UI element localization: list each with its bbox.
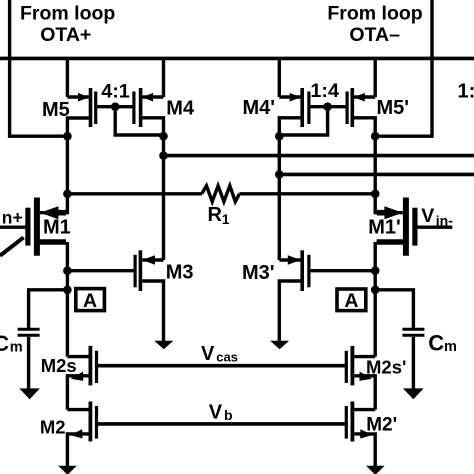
- arrow M5 source (PMOS): [78, 93, 89, 102]
- svg-text:From loop: From loop: [20, 3, 115, 25]
- junction M5' drain / OTA- node: [371, 132, 380, 141]
- wire M3 drain lead: [142, 258, 163, 261]
- svg-text:M1': M1': [368, 217, 401, 239]
- wire M4 source lead: [142, 95, 163, 98]
- svg-text:M2': M2': [366, 415, 397, 436]
- capacitor Cm left plates: [18, 329, 40, 335]
- svg-text:M2s: M2s: [41, 355, 77, 376]
- svg-text:C: C: [428, 330, 444, 355]
- svg-text:V: V: [421, 205, 434, 227]
- arrow M2s source: [71, 372, 84, 381]
- svg-text:V: V: [209, 402, 223, 424]
- transistor M2' channel bar: [350, 402, 354, 442]
- svg-text:4:1: 4:1: [101, 80, 130, 102]
- capacitor Cm right plates: [402, 329, 424, 335]
- svg-text:C: C: [0, 331, 9, 356]
- svg-text:cas: cas: [216, 350, 238, 365]
- wire M4' drain lead + vertical down to M3' drain: [279, 118, 300, 260]
- svg-text:A: A: [83, 290, 97, 312]
- svg-text:OTA+: OTA+: [40, 24, 91, 46]
- wire M1 drain lead up to R1 node: [40, 194, 67, 213]
- wire M1' gate lead to Vin-: [418, 225, 453, 228]
- svg-text:M4': M4': [243, 97, 276, 119]
- wire M2s drain lead: [67, 355, 88, 358]
- transistor M1' channel bar: [403, 198, 409, 256]
- junction line A tap: [159, 151, 168, 160]
- transistor M5' gate bar: [346, 92, 349, 125]
- wire from loop OTA+ (left vertical + horizontal to node): [10, 0, 68, 136]
- svg-text:M3': M3': [242, 262, 275, 284]
- wire M5-M4 gate interconnect: [95, 105, 135, 108]
- svg-text:in-: in-: [436, 213, 453, 229]
- node A box left: [76, 289, 105, 312]
- svg-text:From loop: From loop: [327, 3, 422, 25]
- wire line A horizontal feedback: [164, 154, 474, 158]
- junction M4' drain node: [275, 132, 284, 141]
- svg-text:V: V: [201, 343, 215, 365]
- transistor M1 gate bar: [25, 208, 30, 246]
- transistor M1 channel bar: [34, 198, 40, 256]
- arrow M5' source (PMOS): [354, 93, 365, 102]
- transistor M3 gate bar: [134, 255, 137, 287]
- svg-text:A: A: [344, 290, 358, 312]
- wire M5' source drop: [374, 58, 377, 97]
- arrow M4 source (PMOS): [142, 93, 153, 102]
- svg-text:M3: M3: [166, 262, 194, 284]
- wire R1 right segment: [239, 192, 375, 195]
- transistor M3 channel bar: [139, 250, 143, 291]
- arrow M3 drain: [142, 255, 155, 265]
- transistor M5' channel bar: [350, 88, 354, 127]
- transistor M1' gate bar: [412, 208, 417, 246]
- svg-text:b: b: [224, 407, 233, 423]
- junction line B tap: [275, 170, 284, 179]
- junction M5-M4 gate node: [111, 102, 120, 111]
- svg-text:m: m: [10, 340, 23, 356]
- arrow M2s' source: [359, 372, 372, 381]
- ground below right Cm: [403, 388, 424, 399]
- svg-text:1:4: 1:4: [310, 80, 339, 102]
- svg-text:m: m: [444, 339, 457, 355]
- junction M1' drain / R1 right node: [371, 190, 380, 199]
- junction M5 drain / OTA+ node: [63, 132, 72, 141]
- wire from loop OTA- (right vertical + horizontal to node): [375, 0, 432, 136]
- wire top supply rail: [0, 57, 474, 61]
- svg-text:M2: M2: [40, 417, 66, 438]
- wire Vb line: [97, 422, 347, 426]
- junction M4'-M5' gate node: [323, 102, 332, 111]
- wire left Cm branch from node A: [29, 290, 68, 328]
- wire M3' drain lead: [279, 258, 300, 261]
- arrow M4' source (PMOS): [290, 93, 301, 102]
- transistor M2s channel bar: [89, 346, 93, 386]
- wire M4 diode connection gate-to-drain: [115, 107, 163, 135]
- wire M4' source drop: [278, 58, 281, 97]
- junction M4 drain node: [159, 132, 168, 141]
- svg-text:M2s': M2s': [366, 356, 406, 377]
- wire M3' gate lead: [309, 269, 375, 272]
- wire line B horizontal feedback: [279, 173, 474, 177]
- wire M2s' drain lead: [354, 355, 375, 358]
- wire R1 left segment: [67, 192, 202, 195]
- wire left Cm to ground stem: [27, 337, 30, 389]
- wire M1 gate lead from left edge: [0, 225, 26, 228]
- wire M4'-M5' gate interconnect: [308, 105, 348, 108]
- svg-text:M4: M4: [166, 98, 195, 120]
- arrow M2' source: [360, 429, 372, 438]
- ground below M2': [366, 466, 385, 474]
- wire M4 drain lead + vertical down to M3 drain: [142, 118, 163, 260]
- svg-text:M5: M5: [42, 99, 70, 121]
- junction M1' source / M3' gate node: [371, 266, 380, 275]
- wire M5 source lead: [67, 95, 89, 98]
- transistor M4' channel bar: [300, 88, 304, 127]
- wire M3 gate lead: [67, 269, 134, 272]
- wire M2 source lead down to ground: [67, 434, 88, 467]
- transistor M2 gate bar: [95, 406, 98, 439]
- wire M4' diode connection gate-to-drain: [279, 107, 327, 135]
- wire M3' source lead down to ground: [279, 281, 300, 342]
- arrow M3' drain: [288, 255, 301, 265]
- junction M1 drain / R1 left node: [63, 190, 72, 199]
- wire M5' drain lead: [354, 118, 375, 136]
- ground below left Cm: [19, 388, 40, 399]
- transistor M4 channel bar: [139, 88, 143, 127]
- wire M5 drain lead: [67, 118, 89, 136]
- svg-text:M1: M1: [43, 217, 71, 239]
- wire Vin+ input diagonal: [0, 237, 24, 255]
- arrow M1' drain: [384, 206, 402, 219]
- wire M2' drain lead: [354, 408, 375, 411]
- wire M1' drain lead up to R1 node: [375, 194, 403, 213]
- wire right Cm branch from node A: [375, 290, 413, 328]
- transistor M2s gate bar: [95, 351, 98, 383]
- junction node A right: [371, 286, 380, 295]
- wire M4' source lead: [279, 95, 300, 98]
- svg-text:1: 1: [222, 211, 230, 227]
- svg-text:M5': M5': [377, 97, 410, 119]
- transistor M5 gate bar: [94, 92, 97, 125]
- wire right Cm to ground stem: [412, 337, 415, 389]
- svg-text:1:: 1:: [458, 80, 474, 102]
- junction node A left: [63, 286, 72, 295]
- transistor M2 channel bar: [89, 402, 93, 442]
- wire left spine M5 drain node to R1 node: [66, 136, 69, 194]
- resistor R1 zigzag: [202, 186, 240, 202]
- transistor M2s' gate bar: [345, 351, 348, 383]
- svg-text:R: R: [208, 204, 223, 226]
- node A box right: [337, 289, 366, 312]
- arrow M2 source: [70, 429, 82, 438]
- svg-text:n+: n+: [2, 208, 23, 228]
- wire M2' source lead down to ground: [354, 434, 375, 467]
- junction M1 source / M3 gate node: [63, 266, 72, 275]
- wire M1' source lead + right spine down to M2s' drain: [377, 239, 405, 244]
- transistor M4' gate bar: [307, 92, 310, 125]
- transistor M2s' channel bar: [350, 346, 354, 386]
- wire M1 source lead + left spine down to M2s drain: [38, 239, 66, 244]
- ground below M3': [270, 341, 289, 350]
- arrow M1 drain: [40, 206, 58, 219]
- transistor M3' gate bar: [307, 255, 310, 287]
- wire M4 source drop: [162, 58, 165, 97]
- svg-text:OTA–: OTA–: [349, 24, 400, 46]
- transistor M5 channel bar: [89, 88, 93, 127]
- ground below M2: [58, 466, 77, 474]
- transistor M3' channel bar: [300, 250, 304, 291]
- wire M5' source lead: [354, 95, 375, 98]
- ground below M3: [154, 341, 173, 350]
- wire M2 drain lead: [67, 408, 88, 411]
- wire M3 source lead down to ground: [142, 281, 163, 342]
- wire M2s source lead + spine to M2 drain: [67, 376, 88, 410]
- wire right spine M5' drain node to R1 node: [374, 136, 377, 194]
- transistor M2' gate bar: [345, 406, 348, 439]
- transistor M4 gate bar: [132, 92, 135, 125]
- wire Vcas line: [97, 364, 347, 368]
- wire M5 source drop: [66, 58, 69, 97]
- wire M2s' source lead + spine to M2' drain: [354, 376, 375, 410]
